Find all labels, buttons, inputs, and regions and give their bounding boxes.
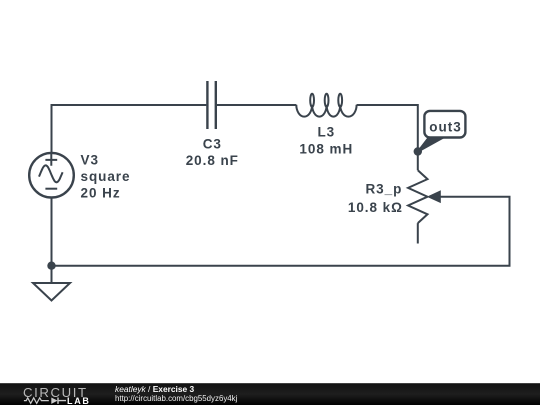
svg-text:V3: V3	[81, 152, 99, 167]
out3 flag pointer	[418, 137, 444, 151]
svg-text:108 mH: 108 mH	[299, 141, 353, 156]
svg-text:http://circuitlab.com/cbg55dyz: http://circuitlab.com/cbg55dyz6y4kj	[115, 394, 238, 403]
node dot at out3	[414, 147, 422, 155]
svg-text:10.8 kΩ: 10.8 kΩ	[348, 200, 403, 215]
wire: wiper right, down, bottom rail	[52, 197, 510, 266]
inductor L3 humps	[296, 105, 356, 117]
svg-text:square: square	[81, 169, 131, 184]
V3 plus sign	[45, 154, 57, 166]
logo doodle wire + resistor	[24, 398, 49, 404]
inductor L3 loops	[310, 94, 314, 107]
logo doodle diode	[51, 398, 57, 404]
svg-text:C3: C3	[203, 136, 222, 151]
svg-text:keatleyk / Exercise 3: keatleyk / Exercise 3	[115, 384, 195, 394]
wire top-left: V3 top to capacitor	[52, 105, 207, 152]
svg-text:20.8 nF: 20.8 nF	[186, 153, 239, 168]
V3 sine wave	[39, 165, 63, 182]
svg-text:R3_p: R3_p	[365, 182, 402, 197]
svg-text:out3: out3	[429, 119, 462, 134]
out3 flag box	[424, 111, 465, 138]
wire: V3 bottom to ground stub	[51, 198, 53, 283]
wire: resistor bottom dangling	[417, 223, 419, 243]
wire: capacitor to inductor	[217, 104, 296, 106]
capacitor C3 plates	[206, 81, 208, 129]
ground symbol	[33, 283, 70, 301]
voltage source V3 circle	[29, 153, 74, 198]
svg-text:L3: L3	[317, 125, 335, 140]
potentiometer R3_p zigzag	[408, 170, 427, 223]
node dot bottom-left	[47, 262, 55, 270]
wire: inductor to out3 corner, down to zigzag	[357, 105, 418, 170]
svg-text:LAB: LAB	[67, 396, 91, 405]
V3 minus sign	[45, 188, 57, 190]
potentiometer wiper arrowhead	[427, 190, 441, 203]
svg-text:20 Hz: 20 Hz	[81, 185, 121, 200]
